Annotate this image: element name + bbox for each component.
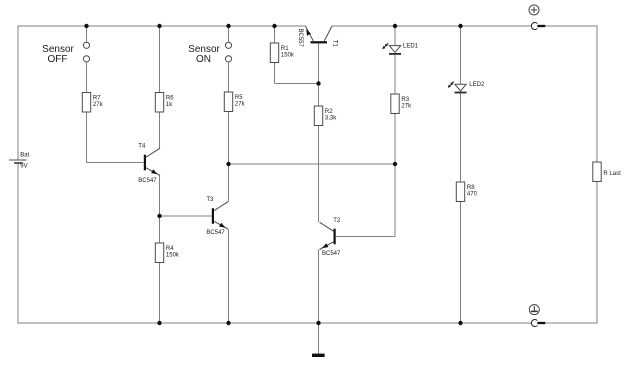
svg-text:R1: R1: [281, 46, 289, 52]
svg-text:150k: 150k: [166, 253, 180, 259]
svg-text:BC547: BC547: [322, 251, 341, 257]
svg-text:R5: R5: [235, 95, 243, 101]
wire sensor OFF top stub: [86, 26, 88, 42]
wire right column upper: [596, 26, 598, 163]
wire bottom rail right: [545, 322, 597, 324]
LED LED1: [382, 43, 418, 54]
transistor T1: [297, 26, 338, 48]
transistor T4: [138, 144, 160, 184]
svg-text:BC547: BC547: [206, 230, 225, 236]
wire sensor OFF to R7: [86, 62, 88, 93]
wire R1 to node A: [275, 63, 319, 84]
plus supply terminal: [529, 5, 539, 15]
svg-text:R6: R6: [166, 96, 174, 102]
node T3 base tap: [157, 214, 161, 218]
wire T3 base: [160, 215, 212, 217]
resistor R2: [314, 106, 337, 126]
node sensor ON top: [226, 24, 230, 28]
svg-text:470: 470: [467, 192, 478, 198]
node R8 bottom: [458, 321, 462, 325]
wire R2 to T2 collector: [318, 126, 320, 222]
wire sensor ON to R5: [228, 62, 230, 92]
node ground junction: [316, 321, 320, 325]
wire top rail to right corner: [545, 25, 597, 27]
svg-text:LED1: LED1: [403, 43, 419, 49]
wire T2 emitter to ground: [318, 250, 320, 354]
connector socket top: [531, 22, 537, 29]
connector pin bottom: [537, 322, 545, 324]
svg-text:T1: T1: [331, 40, 337, 48]
svg-text:R2: R2: [325, 109, 333, 115]
sensor ON terminal lower: [225, 56, 231, 62]
svg-text:LED2: LED2: [469, 82, 485, 88]
svg-text:T2: T2: [333, 218, 341, 224]
wire top rail left: [18, 25, 306, 27]
resistor R4: [155, 243, 180, 263]
sensor ON label: [188, 44, 220, 65]
svg-text:R8: R8: [467, 185, 475, 191]
node middle rail left: [226, 162, 230, 166]
node R1 top: [272, 24, 276, 28]
svg-text:Bat: Bat: [20, 153, 29, 159]
wire R6 to T4 collector: [159, 112, 161, 148]
node A R1-T1 base: [316, 81, 320, 85]
svg-text:1k: 1k: [166, 102, 173, 108]
resistor R6: [155, 93, 174, 113]
wire top rail to LED1: [394, 26, 396, 46]
node R4 bottom: [157, 321, 161, 325]
sensor OFF terminal lower: [83, 56, 89, 62]
svg-text:R Last: R Last: [603, 171, 621, 177]
wire top rail to R1: [274, 26, 276, 43]
node middle rail right: [393, 162, 397, 166]
svg-text:27k: 27k: [235, 102, 246, 108]
svg-text:OFF: OFF: [48, 54, 68, 65]
wire LED2 to R8: [460, 93, 462, 182]
svg-text:ON: ON: [196, 54, 211, 65]
wire bottom rail left: [18, 322, 531, 324]
transistor T3: [206, 197, 228, 236]
wire R8 to bottom rail: [460, 202, 462, 324]
wire R5 to T3 collector: [228, 112, 230, 202]
wire left battery column upper: [17, 26, 19, 160]
svg-text:BC557: BC557: [297, 29, 303, 48]
wire T4 emitter to R4: [159, 176, 161, 244]
connector socket bottom: [531, 320, 537, 327]
svg-text:BC547: BC547: [138, 178, 157, 184]
resistor R3: [391, 94, 412, 114]
battery Bat 9V: [9, 153, 30, 170]
svg-text:150k: 150k: [281, 53, 295, 59]
wire left battery column lower: [17, 163, 19, 324]
wire R4 to bottom rail: [159, 263, 161, 323]
earth terminal: [529, 305, 539, 315]
connector pin top: [537, 25, 545, 27]
node LED2 top: [458, 24, 462, 28]
sensor OFF label: [42, 44, 74, 65]
svg-text:T3: T3: [206, 197, 214, 203]
sensor ON terminal upper: [225, 42, 231, 48]
resistor R5: [224, 92, 245, 112]
wire T1 base to R2: [318, 43, 320, 106]
resistor R Last: [593, 162, 621, 182]
wire R7 to T4 base: [87, 112, 144, 163]
ground: [312, 354, 325, 357]
wire T2 base: [336, 164, 395, 237]
node R6 top: [157, 24, 161, 28]
svg-text:27k: 27k: [93, 102, 104, 108]
wire top rail right: [332, 25, 531, 27]
wire top rail to LED2: [460, 26, 462, 84]
wire top rail to R6: [159, 26, 161, 93]
svg-text:R7: R7: [93, 96, 101, 102]
LED LED2: [448, 82, 485, 93]
wire R3 to middle rail: [394, 114, 396, 165]
wire middle rail: [229, 163, 396, 165]
svg-text:R3: R3: [401, 97, 409, 103]
resistor R8: [456, 182, 477, 202]
wire sensor ON top stub: [228, 26, 230, 42]
node T3 emitter bottom: [226, 321, 230, 325]
resistor R1: [270, 43, 295, 63]
svg-text:T4: T4: [138, 144, 146, 150]
wire LED1 to R3: [394, 54, 396, 94]
node LED1 top: [393, 24, 397, 28]
svg-text:27k: 27k: [401, 104, 412, 110]
resistor R7: [82, 93, 103, 113]
transistor T2: [320, 218, 342, 257]
sensor OFF terminal upper: [83, 42, 89, 48]
svg-text:R4: R4: [166, 246, 174, 252]
svg-text:9V: 9V: [20, 163, 27, 169]
wire T3 emitter to bottom rail: [228, 229, 230, 323]
svg-text:3,3k: 3,3k: [325, 116, 337, 122]
node sensor OFF top: [84, 24, 88, 28]
wire right column lower: [596, 182, 598, 324]
